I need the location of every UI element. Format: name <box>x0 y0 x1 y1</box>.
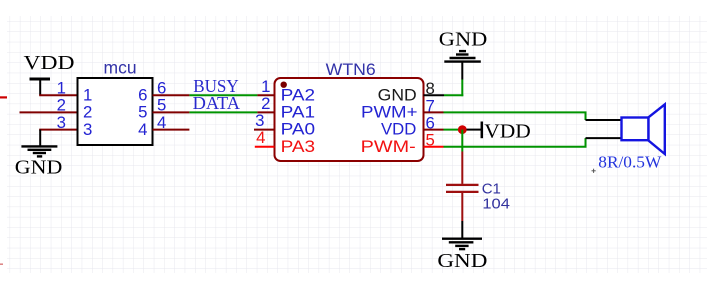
svg-text:GND: GND <box>378 85 417 104</box>
mcu pin 4 <box>138 113 189 139</box>
svg-text:VDD: VDD <box>381 120 416 139</box>
wire PWM- to speaker <box>444 138 587 147</box>
IC WTN6 box <box>275 78 424 161</box>
svg-text:3: 3 <box>83 120 92 139</box>
svg-text:4: 4 <box>256 128 265 147</box>
speaker top lead <box>586 119 623 121</box>
wire C1 to ground (black part) <box>461 221 463 239</box>
wire C1 to ground (dark red part) <box>461 193 463 221</box>
mcu pin 5 <box>138 96 189 122</box>
pin1 marker dot <box>281 82 287 88</box>
wire mcu pin3 <box>39 129 78 131</box>
wire stub at left edge lower (cropped) <box>0 263 3 265</box>
mcu pin 3 <box>57 113 93 139</box>
svg-text:4: 4 <box>138 120 147 139</box>
svg-text:GND: GND <box>437 251 487 272</box>
ground GND (top) <box>439 29 488 79</box>
WTN6 pin 1 PA2 <box>257 77 315 104</box>
svg-text:DATA: DATA <box>193 93 241 113</box>
wire junction to C1 (green part) <box>461 130 463 152</box>
speaker LS1 <box>622 104 665 154</box>
svg-text:1: 1 <box>261 77 270 96</box>
svg-text:2: 2 <box>83 103 92 122</box>
svg-text:8R/0.5W: 8R/0.5W <box>598 153 662 172</box>
WTN6 pin 4 PA3 <box>255 128 315 156</box>
svg-text:WTN6: WTN6 <box>326 61 376 79</box>
WTN6 pin 3 PA0 <box>254 111 315 139</box>
svg-text:VDD: VDD <box>484 121 531 142</box>
WTN6 pin 2 PA1 <box>257 94 315 121</box>
svg-text:PA3: PA3 <box>281 137 316 156</box>
mcu pin 2 <box>57 96 93 122</box>
svg-text:5: 5 <box>138 103 147 122</box>
svg-text:GND: GND <box>15 157 62 178</box>
wire PWM+ to speaker <box>444 112 587 120</box>
wire pin8 to ground <box>444 80 463 97</box>
ground GND (bottom) <box>437 239 487 272</box>
wire junction to C1 (dark red part) <box>461 152 463 184</box>
svg-text:2: 2 <box>57 96 66 115</box>
mcu pin 1 <box>57 79 93 105</box>
net DATA wire <box>189 111 257 113</box>
svg-text:GND: GND <box>439 29 488 50</box>
power symbol VDD (left) <box>24 52 75 95</box>
speaker bottom lead <box>586 137 623 139</box>
power label VDD (right) <box>467 121 531 142</box>
svg-text:1: 1 <box>57 79 66 98</box>
speaker origin cross <box>592 169 596 173</box>
WTN6 pin 8 GND <box>378 79 444 104</box>
ground GND (left) <box>15 130 62 179</box>
net BUSY wire <box>189 94 257 96</box>
svg-text:PA2: PA2 <box>281 85 316 104</box>
WTN6 pin 7 PWM+ <box>361 97 444 122</box>
junction dot <box>458 125 467 134</box>
svg-text:PA0: PA0 <box>281 120 316 139</box>
svg-text:VDD: VDD <box>24 52 75 74</box>
svg-text:1: 1 <box>83 86 92 105</box>
svg-text:PA1: PA1 <box>281 103 316 122</box>
WTN6 pin 5 PWM- <box>361 131 444 156</box>
wire stub at left edge (cropped) <box>0 96 7 98</box>
svg-text:6: 6 <box>138 86 147 105</box>
wire mcu pin2 <box>20 111 79 113</box>
WTN6 pin 6 VDD <box>381 114 462 139</box>
svg-text:PWM+: PWM+ <box>361 103 418 122</box>
svg-text:PWM-: PWM- <box>361 137 416 156</box>
mcu pin 6 <box>138 79 189 105</box>
svg-text:mcu: mcu <box>104 57 137 77</box>
svg-text:3: 3 <box>57 113 66 132</box>
capacitor C1 <box>446 181 510 213</box>
wire mcu pin1 <box>39 94 78 96</box>
mcu box U1 <box>78 78 153 145</box>
svg-text:104: 104 <box>482 196 510 213</box>
